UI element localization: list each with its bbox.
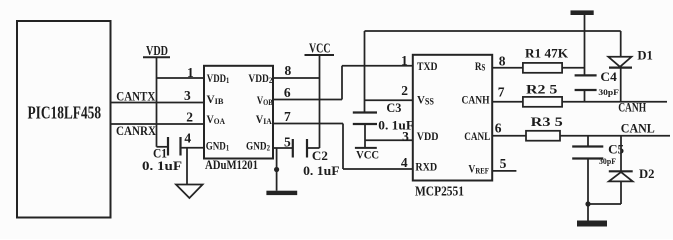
wire GND2 down + junction dot <box>274 148 279 191</box>
ground bar (below ADuM) <box>266 191 297 195</box>
wire VSS <box>365 83 413 100</box>
svg-text:TXD: TXD <box>417 59 438 73</box>
svg-text:VIB: VIB <box>207 94 224 106</box>
svg-text:R2 5: R2 5 <box>526 81 558 96</box>
svg-text:CANL: CANL <box>464 129 490 143</box>
svg-text:RXD: RXD <box>415 159 437 173</box>
wire CANRX <box>111 110 205 139</box>
wire top VSS net <box>365 30 621 32</box>
svg-text:R1 47K: R1 47K <box>525 46 569 61</box>
wire C3 to VDD vertical <box>364 124 366 148</box>
svg-text:6: 6 <box>495 121 502 136</box>
IC U1 PIC18LF458 <box>17 21 111 218</box>
svg-text:5: 5 <box>284 134 291 149</box>
svg-text:VOA: VOA <box>207 114 226 126</box>
svg-text:3: 3 <box>184 88 191 103</box>
svg-text:MCP2551: MCP2551 <box>415 184 464 199</box>
svg-text:1: 1 <box>187 65 194 80</box>
capacitor C5 <box>572 136 624 166</box>
power VCC symbol (bar over label) <box>355 148 379 162</box>
svg-text:PIC18LF458: PIC18LF458 <box>28 103 102 123</box>
svg-text:2: 2 <box>401 83 408 98</box>
wire RS <box>492 54 523 69</box>
wire R1 to GND vertical <box>562 67 584 69</box>
svg-text:ADuM1201: ADuM1201 <box>205 157 258 172</box>
svg-text:CANH: CANH <box>462 92 491 106</box>
capacitor C2 <box>293 139 340 178</box>
svg-text:GND2: GND2 <box>246 140 270 152</box>
power VCC symbol <box>305 41 335 148</box>
wire VSS vertical <box>364 31 366 113</box>
svg-text:8: 8 <box>499 54 506 69</box>
svg-text:VDD1: VDD1 <box>207 73 230 85</box>
capacitor C4 <box>575 70 620 102</box>
svg-text:2: 2 <box>186 110 193 125</box>
svg-text:VDD: VDD <box>417 129 439 143</box>
svg-text:CANH: CANH <box>618 100 646 115</box>
svg-text:D2: D2 <box>639 166 655 181</box>
capacitor C1 <box>142 137 182 173</box>
resistor R1 <box>523 46 569 73</box>
svg-text:C4: C4 <box>600 70 617 84</box>
wire pin7 VIA <box>273 109 343 124</box>
capacitor C3 <box>353 101 415 132</box>
wire CANL <box>492 120 670 136</box>
wire pin8 VDD2 <box>273 63 320 78</box>
svg-text:30pF: 30pF <box>599 157 616 166</box>
svg-text:6: 6 <box>284 85 291 100</box>
svg-text:C2: C2 <box>312 149 328 163</box>
svg-text:1: 1 <box>401 53 408 68</box>
svg-text:5: 5 <box>500 156 507 171</box>
svg-text:CANTX: CANTX <box>116 88 156 103</box>
svg-text:VCC: VCC <box>356 148 379 162</box>
wire VOB to TXD vertical <box>341 66 343 100</box>
svg-text:GND1: GND1 <box>206 140 230 152</box>
wire C5/D2 bottom + junction dot <box>585 159 621 222</box>
svg-text:4: 4 <box>401 155 408 170</box>
svg-text:0. 1uF: 0. 1uF <box>378 118 414 132</box>
svg-text:7: 7 <box>498 84 505 99</box>
svg-text:30pF: 30pF <box>598 88 619 97</box>
wire VIA to RXD vertical <box>342 124 344 170</box>
svg-text:CANL: CANL <box>621 120 655 135</box>
wire RXD <box>343 155 413 170</box>
svg-text:C3: C3 <box>386 101 401 115</box>
svg-text:R3 5: R3 5 <box>531 114 564 129</box>
wire pin1 VDD1 <box>157 65 205 80</box>
wire pin6 VOB <box>273 85 342 100</box>
svg-text:CANRX: CANRX <box>116 123 157 138</box>
ground bar (top) <box>571 10 594 75</box>
svg-text:VIA: VIA <box>256 114 273 126</box>
svg-text:0. 1uF: 0. 1uF <box>142 159 182 173</box>
diode D1 <box>608 31 653 102</box>
svg-text:0. 1uF: 0. 1uF <box>303 164 340 178</box>
svg-text:4: 4 <box>184 131 191 146</box>
wire VREF stub <box>492 156 516 171</box>
wire pin4 GND1 <box>181 131 205 148</box>
svg-text:D1: D1 <box>637 48 653 63</box>
svg-text:3: 3 <box>402 129 409 144</box>
ground triangle <box>176 148 203 198</box>
power VDD symbol <box>143 44 170 147</box>
svg-text:7: 7 <box>284 109 291 124</box>
svg-text:VDD2: VDD2 <box>248 73 272 85</box>
IC U2 ADuM1201 <box>204 66 273 172</box>
wire pin5 GND2 <box>273 134 293 149</box>
resistor R3 <box>526 114 563 141</box>
wire VDD <box>365 129 413 144</box>
wire CANTX <box>111 88 205 103</box>
diode D2 <box>609 136 655 204</box>
IC U3 MCP2551 <box>413 55 492 200</box>
resistor R2 <box>523 81 562 107</box>
ground bar (bottom right) <box>577 221 607 227</box>
svg-text:VCC: VCC <box>309 41 331 56</box>
svg-text:VOB: VOB <box>257 95 273 107</box>
wire CANH <box>492 84 667 114</box>
svg-text:8: 8 <box>285 63 292 78</box>
wire TXD <box>342 53 413 68</box>
